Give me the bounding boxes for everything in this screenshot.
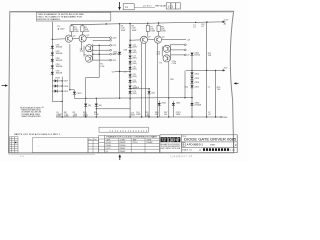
svg-text:TYPE: TYPE	[120, 139, 125, 141]
svg-text:(309): (309)	[132, 69, 137, 71]
svg-text:1 of 1: 1 of 1	[230, 149, 235, 151]
svg-text:1N4148: 1N4148	[56, 47, 63, 49]
junction y71.5	[115, 71, 130, 73]
svg-text:1 0 1: 1 0 1	[168, 4, 174, 8]
svg-text:REF: REF	[107, 139, 110, 141]
vertical drops from resistors to transistors	[71, 32, 73, 36]
svg-text:C12b: C12b	[172, 63, 177, 65]
svg-text:B: B	[183, 143, 185, 147]
svg-text:2.2K: 2.2K	[100, 66, 105, 68]
svg-text:1N914: 1N914	[194, 54, 200, 56]
svg-text:2: 2	[235, 143, 237, 147]
svg-text:(309): (309)	[132, 93, 137, 95]
svg-text:10K: 10K	[217, 89, 221, 91]
rev box A	[123, 4, 134, 10]
svg-text:PARTS LIST FOR A-PC-0685-D-1 R: PARTS LIST FOR A-PC-0685-D-1 REV 1	[14, 133, 61, 136]
svg-text:CR12: CR12	[194, 74, 199, 76]
svg-text:CR8: CR8	[123, 50, 127, 52]
rail arrow terminal right	[223, 21, 226, 23]
svg-text:(30): (30)	[88, 105, 92, 107]
vertical x130.1 with diode stack	[129, 24, 131, 117]
wire Q3 base left	[130, 39, 140, 41]
svg-text:.01: .01	[201, 26, 204, 28]
svg-text:ERRORS OR CHANGES.: ERRORS OR CHANGES.	[37, 18, 60, 21]
svg-text:(309): (309)	[132, 63, 137, 65]
svg-text:10K: 10K	[208, 55, 212, 57]
svg-text:1N44: 1N44	[176, 114, 181, 116]
svg-text:Q4: Q4	[162, 36, 166, 38]
wire between Q1 Q2	[73, 37, 80, 39]
transistor Q3	[140, 36, 147, 43]
rev boxes	[166, 3, 171, 9]
svg-text:R20: R20	[170, 79, 173, 81]
note box top	[37, 12, 111, 21]
svg-text:-15V: -15V	[112, 60, 117, 62]
svg-text:1N914: 1N914	[113, 53, 119, 55]
svg-text:REF: REF	[133, 139, 136, 141]
svg-text:1N4148: 1N4148	[56, 60, 63, 62]
svg-text:Q2: Q2	[86, 35, 90, 37]
svg-text:CR22: CR22	[77, 93, 82, 95]
svg-text:GND: GND	[223, 117, 228, 119]
svg-text:100: 100	[164, 114, 167, 116]
svg-text:1/4W: 1/4W	[132, 30, 137, 32]
svg-text:Q1-Q8: Q1-Q8	[106, 142, 111, 144]
svg-text:Q1: Q1	[73, 35, 77, 37]
resistor R1	[70, 26, 73, 32]
mid horizontal y70	[186, 69, 223, 71]
svg-text:1N41: 1N41	[176, 103, 181, 105]
junction dots on rail	[106, 23, 107, 24]
diode column x192	[191, 52, 193, 117]
svg-text:ELEGANT SOLUTIONS INC.: ELEGANT SOLUTIONS INC.	[161, 143, 181, 146]
wire base Q1 to left vert	[52, 38, 65, 41]
svg-text:1/4W: 1/4W	[74, 31, 79, 33]
transistor Q1	[65, 35, 72, 42]
svg-text:A1: A1	[125, 6, 129, 9]
svg-text:A2: A2	[224, 23, 227, 26]
rev arrow	[118, 2, 121, 10]
svg-text:~: ~	[38, 145, 40, 148]
svg-text:CR17: CR17	[63, 81, 68, 83]
up arrow bottom margin	[119, 154, 122, 160]
svg-text:CR13: CR13	[194, 78, 199, 80]
vertical x119.6 with diode CR6	[119, 24, 121, 99]
svg-text:1/1: 1/1	[189, 149, 192, 151]
left long vertical x52	[51, 22, 53, 79]
svg-text:1N4448: 1N4448	[194, 105, 201, 107]
jog left then down x82	[86, 77, 100, 79]
svg-text:(309): (309)	[132, 57, 137, 59]
stacked pair Q7/Q8 right	[163, 45, 170, 52]
svg-text:P2: P2	[84, 54, 86, 56]
title area	[180, 135, 182, 153]
svg-text:SHEET: SHEET	[210, 144, 215, 146]
resistor R2	[81, 26, 84, 32]
svg-text:1/4W: 1/4W	[145, 116, 150, 118]
svg-text:TYPE: TYPE	[147, 139, 152, 141]
svg-text:1/4W: 1/4W	[94, 114, 99, 116]
svg-text:(309): (309)	[132, 82, 137, 84]
svg-text:R14: R14	[136, 87, 139, 89]
svg-text:(30): (30)	[152, 92, 156, 94]
stacked boxes col 1	[88, 138, 99, 153]
svg-text:1/4W: 1/4W	[83, 116, 88, 118]
svg-text:1N4148: 1N4148	[56, 53, 63, 55]
svg-text:8-13: 8-13	[20, 156, 25, 158]
parts list big box	[32, 138, 88, 153]
jog from x52 to x62	[52, 100, 62, 102]
resistor R8	[157, 25, 160, 31]
svg-text:CR19: CR19	[63, 91, 68, 93]
svg-text:(10): (10)	[80, 50, 84, 52]
svg-text:1/4W: 1/4W	[73, 116, 78, 118]
wires right to pin circles	[86, 37, 110, 39]
svg-text:1N41: 1N41	[161, 103, 166, 105]
svg-text:1N4148: 1N4148	[119, 145, 125, 147]
vertical from right pair down	[168, 62, 170, 117]
svg-text:Qty: Qty	[89, 138, 92, 141]
svg-text:-12V: -12V	[112, 45, 117, 47]
svg-text:1/4W: 1/4W	[56, 116, 61, 118]
logo: blocky inverse glyphs	[161, 137, 181, 142]
svg-text:CR18: CR18	[63, 86, 68, 88]
svg-text:X: X	[199, 149, 201, 152]
svg-text:1/4W: 1/4W	[161, 31, 166, 33]
svg-text:+15: +15	[41, 107, 45, 109]
wire between Q3 Q4	[148, 39, 155, 41]
svg-text:(309): (309)	[131, 115, 136, 117]
svg-text:1/4W: 1/4W	[150, 31, 155, 33]
extra bottom line under parts area	[9, 153, 96, 155]
top rail	[71, 22, 207, 25]
svg-text:2N4248: 2N4248	[119, 142, 125, 144]
svg-text:Part: Part	[94, 138, 98, 141]
svg-text:CR15: CR15	[194, 86, 199, 88]
diodes CR1-CR5 on x52	[51, 46, 54, 49]
svg-text:-5V: -5V	[187, 55, 191, 57]
svg-text:(309): (309)	[132, 46, 137, 48]
horizontal y108.8	[96, 108, 130, 110]
size/fscm/dwg row	[182, 143, 185, 146]
svg-text:1N4148: 1N4148	[56, 66, 63, 68]
svg-text:(309): (309)	[132, 52, 137, 54]
svg-text:2N5087: 2N5087	[119, 151, 125, 153]
stacked pair Q5/Q6	[86, 45, 93, 52]
svg-text:1/4W: 1/4W	[85, 31, 90, 33]
svg-text:(10): (10)	[157, 54, 161, 56]
diodes above bottom rail right side	[158, 101, 160, 103]
vertical from pair emitters down	[98, 45, 100, 77]
svg-text:Q9: Q9	[106, 151, 108, 153]
tick ruler bar	[99, 127, 148, 132]
vertical x206.6	[206, 22, 208, 117]
svg-text:.01: .01	[208, 114, 211, 116]
emitter verticals from Q1,Q2	[80, 42, 82, 50]
svg-text:P3: P3	[159, 62, 162, 64]
svg-text:+5V: +5V	[187, 40, 191, 42]
svg-text:CR1-9: CR1-9	[133, 142, 138, 144]
vertical x62.2	[61, 77, 63, 117]
rev line	[134, 6, 155, 8]
lower part diodes on x130	[129, 74, 132, 77]
svg-text:(30): (30)	[99, 105, 103, 107]
vertical x215.6	[215, 70, 217, 117]
svg-text:1/4W: 1/4W	[64, 116, 69, 118]
svg-text:per ECO: per ECO	[143, 5, 152, 8]
transistor Q4	[154, 36, 161, 43]
svg-text:REV 10-4-87: REV 10-4-87	[156, 6, 167, 8]
svg-text:DIODE GATE DRIVER 0685: DIODE GATE DRIVER 0685	[184, 137, 236, 141]
svg-text:2N5087: 2N5087	[119, 148, 125, 150]
right edge of title block	[236, 135, 238, 153]
svg-text:(309): (309)	[132, 76, 137, 78]
svg-text:+15V: +15V	[223, 20, 229, 22]
svg-text:1/4W: 1/4W	[121, 30, 126, 32]
svg-text:1/4W: 1/4W	[136, 114, 141, 116]
svg-text:CAPACITORS ARE IN MFD: CAPACITORS ARE IN MFD	[21, 115, 41, 118]
wires right from pair to pins	[162, 39, 186, 41]
svg-text:A-PO-0685-D-1: A-PO-0685-D-1	[187, 144, 204, 147]
emitter drops Q3,Q4 to bottom rail	[141, 43, 143, 117]
svg-text:Q3: Q3	[148, 37, 152, 39]
svg-text:CR16: CR16	[55, 77, 60, 79]
svg-text:+15: +15	[123, 71, 126, 73]
svg-text:11 ELKINS RD E.BRUNSWICK: 11 ELKINS RD E.BRUNSWICK	[161, 146, 181, 148]
verticals x85.7 x96.3 with diodes	[85, 78, 87, 118]
horizontal y98.3	[74, 97, 192, 100]
svg-text:.01: .01	[193, 27, 197, 29]
svg-text:SCALE: SCALE	[182, 148, 189, 151]
conversion chart	[105, 135, 160, 152]
bottom rail	[56, 116, 220, 118]
svg-text:TRANSISTOR & DIODE CONVERSION: TRANSISTOR & DIODE CONVERSION CHART	[106, 136, 158, 139]
stacked boxes col 2	[99, 135, 105, 152]
svg-text:1N4148: 1N4148	[56, 73, 63, 75]
logo block	[160, 135, 237, 153]
Q1 emitter drop + diode jog	[69, 44, 71, 90]
left bottom: three horizontal diodes	[51, 79, 53, 101]
svg-text:P1-P3: P1-P3	[106, 148, 111, 150]
svg-text:GD: GD	[112, 71, 115, 73]
svg-text:1N4448: 1N4448	[146, 142, 152, 144]
transistor Q2	[79, 35, 86, 42]
left small revision table	[10, 137, 18, 153]
svg-text:Tx/4 (mf) 4-1 + , p4: Tx/4 (mf) 4-1 + , p4	[170, 154, 193, 159]
resistor R7	[146, 25, 149, 31]
svg-text:◆ 12V2: ◆ 12V2	[58, 28, 66, 31]
svg-text:100: 100	[155, 114, 158, 116]
svg-text:+12V: +12V	[112, 38, 117, 40]
margin arrows	[2, 84, 8, 86]
svg-text:CR ALL: CR ALL	[106, 144, 112, 147]
svg-text:CR14: CR14	[194, 82, 199, 84]
sheet border	[9, 11, 234, 153]
svg-text:-15V: -15V	[223, 68, 228, 70]
svg-text:C2: C2	[208, 86, 210, 88]
base bar vertical for pair	[92, 44, 94, 60]
